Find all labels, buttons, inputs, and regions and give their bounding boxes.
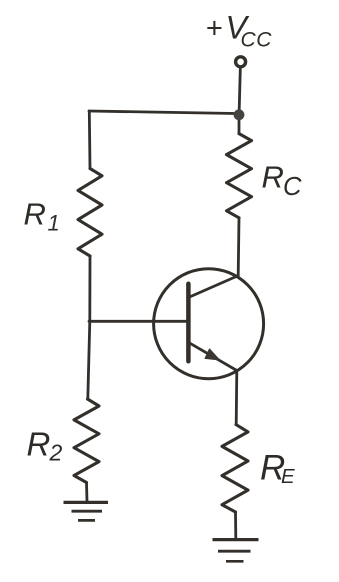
svg-text:R: R (262, 160, 284, 195)
wire left rail lower (88, 321, 90, 399)
svg-text:R: R (27, 426, 51, 463)
svg-text:E: E (281, 465, 295, 488)
transistor Q1 emitter arrow (205, 349, 220, 360)
label +Vcc (206, 10, 273, 52)
ground under Re (213, 540, 259, 562)
wire R2 to ground (85, 483, 88, 503)
wire emitter down (235, 371, 238, 425)
svg-text:R: R (24, 197, 46, 232)
svg-text:2: 2 (49, 440, 63, 466)
wire Re to ground (234, 512, 237, 539)
wire left rail upper (88, 111, 91, 169)
wire Rc to collector (237, 218, 241, 276)
label R2 (27, 426, 63, 466)
svg-text:CC: CC (241, 29, 273, 52)
junction node dot (234, 109, 245, 120)
svg-text:1: 1 (48, 211, 60, 236)
transistor Q1 base bar (186, 284, 191, 362)
wire junction to Rc (238, 115, 241, 134)
resistor R1 (78, 169, 102, 257)
svg-text:C: C (283, 173, 302, 201)
label Re (260, 449, 295, 489)
terminal +Vcc (236, 57, 246, 67)
transistor Q1 circle (154, 269, 264, 379)
ground under R2 (64, 502, 109, 520)
svg-text:+: + (206, 13, 223, 45)
wire left rail middle (88, 256, 91, 321)
wire Vcc terminal to junction (239, 69, 240, 110)
label R1 (24, 197, 60, 236)
transistor Q1 collector stroke (190, 276, 239, 297)
resistor Rc (227, 134, 252, 218)
resistor R2 (74, 399, 99, 483)
wire top horizontal (89, 111, 236, 114)
wire base horizontal (89, 320, 187, 323)
resistor Re (222, 425, 248, 512)
transistor Q1 emitter stroke (189, 343, 237, 371)
label Rc (262, 160, 303, 201)
